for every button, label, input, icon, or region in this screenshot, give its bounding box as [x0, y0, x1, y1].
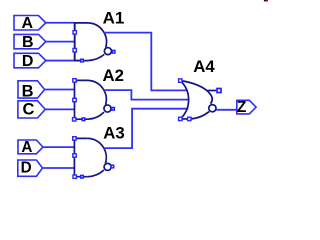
- wire port C to A2: [45, 108, 74, 110]
- pin square A2 left middle: [73, 98, 76, 101]
- svg-text:D: D: [22, 53, 34, 70]
- pin square A4 top corner: [179, 79, 182, 82]
- input port C (row 2): [18, 101, 45, 118]
- input port D (row 1): [14, 53, 46, 68]
- svg-text:B: B: [22, 34, 34, 51]
- pin square A3 left middle: [73, 154, 76, 157]
- wire A1 left-edge vertical: [74, 23, 76, 61]
- pin square A3 top corner: [73, 137, 76, 140]
- svg-text:Z: Z: [237, 99, 247, 116]
- wire port B to A1: [46, 41, 75, 43]
- pin square A2 bottom: [82, 118, 85, 121]
- wire port A to A1: [46, 22, 75, 24]
- svg-text:A1: A1: [103, 8, 125, 27]
- wire port B2 to A2: [45, 89, 75, 91]
- pin square A2 bottom corner: [73, 118, 76, 121]
- wire port A3row to A3: [43, 146, 75, 148]
- NAND gate A1: [75, 23, 112, 61]
- pin square A1 bottom: [81, 59, 84, 62]
- pin square A4 stub end: [217, 89, 221, 93]
- wire A2 output to A4 input 2: [103, 90, 189, 100]
- input port A (row 1): [14, 16, 46, 31]
- NAND gate A3: [74, 138, 111, 176]
- svg-text:A: A: [21, 139, 32, 156]
- NAND gate A2: [75, 80, 112, 119]
- pin square A1 input 2: [73, 49, 76, 52]
- pin square A1 input 1: [73, 31, 76, 34]
- svg-text:C: C: [23, 100, 35, 118]
- pin square A4 bottom: [188, 117, 191, 120]
- input port B (row 2): [18, 81, 45, 98]
- svg-text:B: B: [22, 82, 34, 100]
- pin square A2 output: [112, 108, 115, 111]
- wire port D to A1: [46, 60, 82, 62]
- pin square A3 output: [111, 165, 114, 168]
- pin square A3 bottom corner: [73, 175, 76, 178]
- wire port D3row to A3: [43, 167, 75, 169]
- wire A3 output to A4 input 3: [103, 109, 188, 148]
- svg-text:D: D: [21, 159, 32, 176]
- output port Z: [237, 100, 256, 114]
- svg-text:A3: A3: [103, 123, 124, 142]
- wire A1 output to A4 input 1: [104, 33, 188, 91]
- pin square A3 bottom: [81, 175, 84, 178]
- svg-text:A4: A4: [193, 57, 215, 76]
- svg-text:A: A: [22, 15, 34, 32]
- svg-text:A2: A2: [103, 66, 124, 85]
- pin square A2 top corner: [73, 79, 76, 82]
- input port D (row 3): [18, 160, 43, 176]
- screen corner artifact: [264, 0, 268, 1]
- pin square A4 bottom corner: [179, 117, 182, 120]
- A4 unconnected stub: [208, 90, 217, 92]
- NOR gate A4 body: [180, 81, 216, 119]
- input port A (row 3): [18, 140, 43, 154]
- pin square A1 output: [112, 50, 115, 53]
- wire A4 output to Z: [216, 109, 237, 111]
- input port B (row 1): [14, 34, 46, 48]
